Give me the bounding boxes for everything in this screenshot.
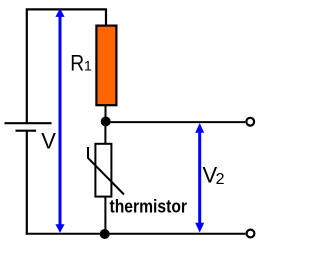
svg-text:2: 2	[216, 171, 225, 188]
svg-text:V: V	[41, 129, 56, 154]
svg-text:R: R	[70, 51, 84, 76]
svg-text:1: 1	[84, 58, 92, 74]
svg-text:thermistor: thermistor	[110, 197, 188, 217]
